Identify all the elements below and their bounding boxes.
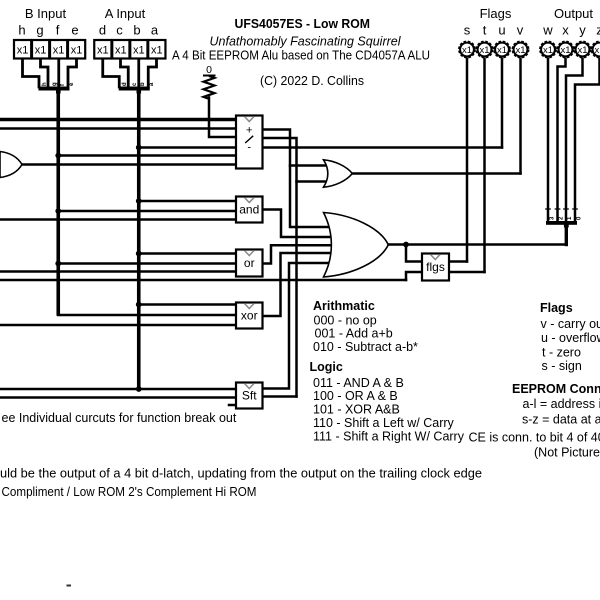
svg-text:Unfathomably Fascinating Squir: Unfathomably Fascinating Squirrel [210,34,402,49]
svg-text:uld be the output of a 4 bit d: uld be the output of a 4 bit d-latch, up… [0,467,482,481]
svg-text:x1: x1 [479,45,489,56]
svg-text:d: d [99,23,106,38]
svg-text:w: w [542,23,553,38]
svg-text:b: b [133,23,140,38]
svg-text:110 - Shift a Left w/ Carry: 110 - Shift a Left w/ Carry [313,416,455,430]
svg-text:011 - AND A & B: 011 - AND A & B [313,376,404,390]
svg-text:000 - no op: 000 - no op [314,314,377,328]
svg-text:a: a [151,23,159,38]
svg-text:Flags: Flags [540,301,573,315]
svg-text:s-z = data at addr: s-z = data at addr [522,413,600,427]
svg-text:xor: xor [241,309,258,323]
svg-text:h: h [42,82,48,86]
svg-text:-: - [247,142,251,154]
svg-text:s - sign: s - sign [542,359,582,373]
svg-text:Logic: Logic [310,360,343,374]
svg-text:z: z [596,23,600,38]
svg-text:A 4 Bit EEPROM Alu based on Th: A 4 Bit EEPROM Alu based on The CD4057A … [172,48,430,63]
svg-text:or: or [244,256,255,270]
svg-text:ee Individual curcuts for func: ee Individual curcuts for function break… [2,411,237,425]
svg-text:x1: x1 [515,45,525,56]
svg-text:x: x [562,23,569,38]
svg-text:x1: x1 [151,45,163,57]
svg-text:s: s [464,23,471,38]
svg-text:g: g [52,82,58,86]
svg-text:e: e [71,23,78,38]
svg-text:x1: x1 [115,45,127,57]
svg-text:EEPROM Connections: EEPROM Connections [512,382,600,396]
svg-text:001 - Add a+b: 001 - Add a+b [315,327,393,341]
svg-text:c: c [116,23,123,38]
svg-text:x1: x1 [577,45,587,56]
svg-text:y: y [579,23,586,38]
svg-text:x1: x1 [53,45,65,57]
svg-text:h: h [18,23,25,38]
svg-text:x1: x1 [594,45,600,56]
svg-text:A Input: A Input [105,6,146,21]
svg-text:x1: x1 [35,45,47,57]
svg-text:and: and [239,203,259,217]
svg-text:g: g [36,23,43,38]
svg-text:010 - Subtract a-b*: 010 - Subtract a-b* [313,340,418,354]
svg-text:Compliment / Low ROM 2's Compl: Compliment / Low ROM 2's Complement Hi R… [2,485,257,499]
svg-text:x1: x1 [17,45,29,57]
svg-text:u: u [498,23,505,38]
svg-text:u - overflow: u - overflow [541,331,600,345]
svg-text:x1: x1 [71,45,83,57]
svg-text:t - zero: t - zero [542,346,581,360]
svg-text:f: f [56,23,60,38]
svg-text:x1: x1 [497,45,507,56]
svg-text:b: b [140,82,146,86]
svg-text:flgs: flgs [426,260,445,274]
svg-text:x1: x1 [560,45,570,56]
svg-text:0: 0 [206,64,212,76]
svg-text:111 - Shift a Right W/ Carry: 111 - Shift a Right W/ Carry [313,430,465,444]
svg-text:x1: x1 [97,45,109,57]
svg-text:a-l = address in: a-l = address in [523,397,600,411]
svg-text:x1: x1 [543,45,553,56]
svg-text:Output: Output [554,6,593,21]
svg-text:x1: x1 [133,45,145,57]
svg-text:100 - OR A & B: 100 - OR A & B [313,389,398,403]
svg-text:CE is conn. to bit 4 of 4057: CE is conn. to bit 4 of 4057 [469,431,600,445]
svg-text:t: t [483,23,487,38]
svg-text:+: + [246,125,252,137]
svg-text:v - carry out: v - carry out [541,317,600,331]
svg-text:(Not Pictured): (Not Pictured) [534,446,600,460]
svg-text:UFS4057ES - Low ROM: UFS4057ES - Low ROM [235,16,371,31]
svg-text:x1: x1 [462,45,472,56]
svg-text:v: v [517,23,524,38]
svg-text:101 - XOR A&B: 101 - XOR A&B [313,403,400,417]
svg-text:Sft: Sft [242,389,257,403]
svg-text:Arithmatic: Arithmatic [313,299,375,313]
svg-text:(C) 2022 D. Collins: (C) 2022 D. Collins [260,74,364,88]
svg-text:d: d [122,82,128,86]
svg-text:Flags: Flags [480,6,512,21]
svg-text:B Input: B Input [25,6,67,21]
